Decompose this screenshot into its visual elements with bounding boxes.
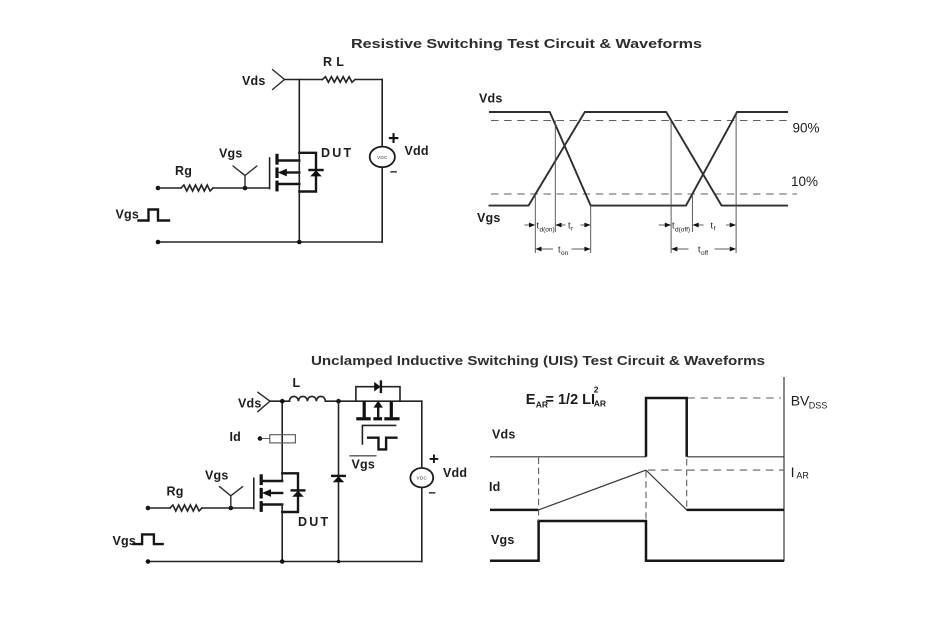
label td(on)	[537, 221, 555, 234]
svg-text:Vgs: Vgs	[205, 469, 229, 483]
transistor DUT channel bars	[275, 154, 278, 192]
node: gate drive input terminal	[156, 186, 161, 191]
svg-text:E: E	[526, 392, 536, 408]
svg-text:off: off	[701, 250, 708, 257]
source Vdd (UIS VDC circle)	[410, 468, 433, 487]
wire drain vertical	[298, 80, 300, 243]
node: UIS gate input terminal	[146, 506, 151, 511]
probe Vgs (UIS gate probe)	[220, 487, 243, 508]
svg-text:Unclamped Inductive Switching: Unclamped Inductive Switching (UIS) Test…	[311, 353, 765, 368]
marker line t6 (end of turn-off)	[735, 112, 737, 253]
svg-text:Vgs: Vgs	[116, 208, 140, 222]
dashed marker at gate turn-on	[538, 458, 540, 522]
wire RL to supply branch	[356, 79, 383, 81]
wire bottom rail (UIS)	[148, 561, 422, 563]
transistor DUT body arrow (UIS)	[262, 489, 282, 497]
dimension arrow into t4	[659, 223, 671, 228]
svg-text:Vdd: Vdd	[405, 144, 429, 158]
wire supply branch vertical upper	[381, 80, 383, 147]
svg-text:Vgs: Vgs	[477, 211, 501, 225]
svg-text:Id: Id	[230, 430, 242, 444]
dimension arrow t_on right head	[572, 247, 591, 252]
svg-text:+: +	[388, 129, 399, 150]
svg-text:Resistive Switching Test Circu: Resistive Switching Test Circuit & Wavef…	[351, 36, 702, 51]
label Vds	[242, 74, 266, 88]
svg-text:DUT: DUT	[298, 515, 330, 529]
waveform Vgs gate pulse	[490, 521, 784, 561]
marker line t2 (90% of Vds fall)	[554, 121, 556, 233]
svg-text:BV: BV	[791, 393, 810, 409]
title: Resistive Switching Test Circuit & Waveforms	[351, 36, 702, 51]
node: source-rail junction	[297, 240, 302, 245]
wire probe tip to inductor	[270, 400, 289, 402]
transistor DUT channel bars (UIS)	[260, 474, 263, 512]
svg-text:on: on	[561, 250, 569, 257]
body diode of DUT (UIS)	[292, 490, 305, 496]
label Vgs-bar overline	[349, 455, 376, 457]
svg-text:VDC: VDC	[377, 155, 388, 160]
source Vdd (VDC circle)	[370, 147, 395, 168]
label Vdd	[405, 144, 429, 158]
body diode of DUT	[310, 170, 323, 176]
body diode branch wiring	[299, 153, 316, 192]
label t_off	[698, 245, 708, 258]
dimension arrow into t3	[581, 223, 591, 228]
dimension arrow t_off right head	[715, 247, 737, 252]
wire supply branch vertical upper (UIS)	[421, 401, 423, 468]
dimension arrow at t2 left	[555, 223, 565, 228]
node: gate node junction	[243, 186, 248, 191]
wire inductor to clamp and supply	[325, 400, 421, 402]
transistor DUT gate bar	[269, 158, 271, 189]
resistor Rg	[181, 185, 213, 191]
wire supply branch vertical lower	[381, 167, 383, 242]
label - polarity minus	[390, 164, 397, 179]
probe Vgs (gate voltage probe)	[233, 166, 257, 188]
label + polarity plus	[388, 129, 399, 150]
label tr	[568, 221, 574, 233]
transistor DUT gate bar (UIS)	[253, 478, 255, 508]
waveform Id flat left	[490, 509, 539, 512]
label formula E_AR = 1/2 LI^2_AR	[526, 385, 606, 410]
probe Vds (UIS)	[258, 392, 270, 412]
wire Rg to DUT gate (UIS)	[202, 507, 254, 509]
svg-text:–: –	[390, 164, 397, 179]
probe Vds (drain voltage probe)	[273, 70, 285, 90]
waveform Id ramp up	[539, 470, 646, 510]
node: clamp branch junction	[336, 399, 341, 404]
label RL	[323, 55, 348, 69]
label Vds (waveform)	[479, 92, 503, 106]
diode (freewheel branch)	[332, 476, 345, 482]
wire Rg to gate	[213, 187, 270, 189]
label + polarity plus (UIS)	[429, 450, 439, 469]
label td(off)	[672, 221, 690, 234]
dashed 10% level line	[491, 193, 797, 195]
dimension arrow into t6	[726, 223, 736, 228]
waveform Vds avalanche pulse	[646, 398, 687, 457]
svg-text:Vdd: Vdd	[443, 466, 467, 480]
svg-text:Vgs: Vgs	[113, 534, 137, 548]
label Rg	[175, 164, 192, 178]
label Vgs (UIS input)	[113, 534, 137, 548]
svg-text:AR: AR	[594, 399, 606, 409]
svg-text:Rg: Rg	[167, 485, 184, 499]
svg-text:Vds: Vds	[492, 428, 516, 442]
label BVDSS	[791, 393, 828, 411]
label tf	[711, 221, 716, 233]
svg-text:Vds: Vds	[479, 92, 503, 106]
resistor RL	[323, 77, 356, 83]
transistor DUT source lead	[277, 183, 299, 185]
label 10%	[791, 174, 818, 189]
dimension arrow at t5	[692, 223, 703, 228]
svg-text:–: –	[429, 485, 436, 500]
svg-text:= 1/2 LI: = 1/2 LI	[546, 392, 596, 408]
waveform trace Vgs	[489, 112, 789, 206]
label Id (UIS waveform)	[489, 480, 501, 494]
svg-text:+: +	[429, 450, 439, 469]
node: UIS gate node junction	[229, 506, 234, 511]
wire supply branch vertical lower (UIS)	[421, 487, 423, 561]
dashed BVDSS level line	[688, 397, 782, 399]
dimension arrow t_on left head	[535, 247, 553, 252]
wire input to Rg (UIS)	[148, 507, 170, 509]
svg-text:I: I	[791, 464, 795, 480]
waveform trace Vds	[489, 112, 788, 206]
pulse source Vgs (UIS input pulse symbol)	[134, 534, 163, 544]
clamp FET body diode (top)	[374, 382, 381, 392]
label - polarity minus (UIS)	[429, 485, 436, 500]
marker line t1 (10% of Vgs rise)	[534, 194, 536, 253]
svg-text:Vgs: Vgs	[219, 147, 243, 161]
clamp FET channel bars	[356, 417, 399, 420]
label Vgs (UIS waveform)	[491, 533, 515, 547]
transistor DUT body arrow	[278, 169, 300, 177]
waveform Id ramp down	[646, 470, 687, 510]
svg-text:L: L	[293, 376, 301, 390]
dimension arrow t_off left head	[671, 247, 688, 252]
svg-text:Rg: Rg	[175, 164, 192, 178]
label Vds (UIS)	[238, 397, 262, 411]
svg-text:2: 2	[594, 385, 599, 395]
label L	[293, 376, 301, 390]
node: UIS rail source junction	[280, 559, 285, 564]
label Vgs (input)	[116, 208, 140, 222]
svg-text:AR: AR	[796, 471, 809, 481]
label Vgs (UIS probe)	[205, 469, 229, 483]
pulse source inverted (clamp gate drive)	[368, 438, 396, 450]
wire DUT source vertical to rail (UIS)	[281, 505, 283, 562]
wire clamp diode branch vertical	[338, 401, 340, 561]
svg-text:DUT: DUT	[321, 146, 353, 160]
dashed marker at avalanche end	[686, 459, 688, 510]
transistor DUT drain lead (UIS)	[261, 480, 282, 482]
node: drain branch junction	[280, 399, 285, 404]
label Vgs (probe)	[219, 147, 243, 161]
label Vds (UIS waveform)	[492, 428, 516, 442]
svg-text:f: f	[714, 226, 716, 233]
marker line t5 (10% of Vds rise)	[691, 194, 693, 232]
wire input to Rg	[158, 187, 181, 189]
label DUT (UIS)	[298, 515, 330, 529]
label DUT	[321, 146, 353, 160]
svg-text:Vds: Vds	[242, 74, 266, 88]
clamp FET gate wiring	[362, 425, 395, 444]
resistor Rg (UIS)	[170, 505, 202, 511]
body diode branch wiring (UIS DUT)	[282, 473, 298, 512]
wire Id dot to sense box	[260, 438, 270, 440]
svg-text:r: r	[571, 226, 574, 233]
waveform Vds baseline left	[490, 456, 646, 458]
svg-text:10%: 10%	[791, 174, 818, 189]
waveform Vds baseline right	[687, 456, 784, 458]
dashed marker at avalanche start	[645, 471, 647, 521]
svg-text:Vgs: Vgs	[352, 458, 376, 472]
label Rg (UIS)	[167, 485, 184, 499]
waveform Id flat right	[687, 509, 784, 512]
inductor L	[289, 396, 325, 401]
svg-text:d(off): d(off)	[675, 227, 690, 234]
wire bottom rail (top circuit)	[158, 241, 382, 243]
node: ground rail left terminal	[156, 240, 161, 245]
axis right vertical line	[783, 377, 785, 561]
node: UIS rail clamp junction	[337, 560, 341, 564]
wire DUT drain vertical (UIS)	[281, 401, 283, 481]
marker line t4 (90% of Vgs fall)	[670, 121, 672, 254]
dimension arrow into t1	[525, 223, 536, 228]
svg-text:RL: RL	[323, 55, 348, 69]
svg-text:90%: 90%	[793, 121, 820, 136]
clamp FET body arrow	[374, 401, 383, 418]
svg-text:Vgs: Vgs	[491, 533, 515, 547]
dashed IAR level line	[648, 469, 784, 471]
svg-text:VDC: VDC	[416, 476, 427, 481]
node: Id sense dot	[258, 436, 263, 441]
marker line t3 (end of turn-on)	[590, 206, 592, 253]
label t_on	[558, 245, 569, 258]
label IAR	[791, 464, 810, 481]
transistor DUT source lead (UIS)	[261, 503, 282, 505]
current sense Id box	[270, 435, 296, 443]
pulse source Vgs (input pulse symbol)	[139, 210, 170, 221]
svg-text:Vds: Vds	[238, 397, 262, 411]
label Vdd (UIS)	[443, 466, 467, 480]
transistor DUT drain lead	[277, 159, 299, 161]
wire probe tip to RL	[285, 79, 323, 81]
label 90%	[793, 121, 820, 136]
label Id	[230, 430, 242, 444]
label Vgs (waveform)	[477, 211, 501, 225]
node: UIS rail left terminal	[146, 559, 151, 564]
clamp FET source contact	[390, 401, 393, 417]
label Vgs-bar text	[352, 458, 376, 472]
title: Unclamped Inductive Switching (UIS) Test Circuit & Waveforms	[311, 353, 765, 368]
clamp FET drain contact	[363, 401, 366, 417]
svg-text:Id: Id	[489, 480, 501, 494]
svg-text:DSS: DSS	[809, 401, 828, 411]
svg-text:d(on): d(on)	[540, 227, 555, 234]
dashed 90% level line	[491, 120, 788, 122]
clamp FET top bracket wiring	[356, 387, 400, 402]
